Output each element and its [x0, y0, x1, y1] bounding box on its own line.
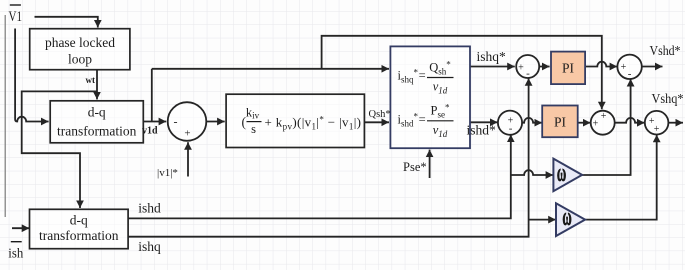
svg-text:+: +: [621, 62, 627, 73]
svg-text:Qsh*: Qsh*: [369, 109, 391, 120]
svg-text:=: =: [419, 69, 426, 83]
svg-text:ish: ish: [8, 247, 23, 262]
svg-text:-: -: [628, 68, 632, 80]
svg-text:wt: wt: [86, 75, 96, 85]
svg-text:+: +: [518, 62, 524, 73]
svg-text:phase locked: phase locked: [45, 35, 115, 50]
svg-text:-: -: [526, 68, 530, 80]
svg-text:PI: PI: [562, 60, 575, 75]
svg-text:ω: ω: [562, 204, 571, 232]
svg-text:=: =: [419, 113, 426, 127]
svg-text:ishd: ishd: [138, 201, 161, 216]
svg-text:transformation: transformation: [57, 124, 137, 139]
svg-text:-: -: [174, 115, 178, 129]
svg-text:v1d: v1d: [142, 126, 158, 137]
svg-text:|v1|*: |v1|*: [157, 167, 178, 179]
svg-text:PI: PI: [554, 114, 567, 129]
svg-text:ishd*: ishd*: [467, 123, 497, 138]
svg-text:+: +: [184, 128, 190, 140]
svg-text:+: +: [601, 111, 607, 122]
svg-text:transformation: transformation: [39, 228, 119, 243]
svg-text:V1: V1: [9, 9, 23, 25]
svg-text:loop: loop: [68, 52, 92, 67]
svg-text:Vshq*: Vshq*: [652, 91, 684, 106]
svg-text:+: +: [593, 119, 599, 130]
svg-text:ishq*: ishq*: [477, 49, 507, 64]
svg-text:ishq: ishq: [138, 239, 161, 254]
svg-text:ω: ω: [557, 159, 566, 187]
svg-text:-: -: [509, 122, 513, 134]
svg-text:d-q: d-q: [70, 213, 88, 228]
svg-text:Vshd*: Vshd*: [650, 43, 681, 58]
svg-text:d-q: d-q: [88, 105, 106, 120]
svg-text:+: +: [654, 124, 660, 135]
svg-text:s: s: [251, 122, 256, 136]
svg-text:Pse*: Pse*: [403, 160, 427, 174]
